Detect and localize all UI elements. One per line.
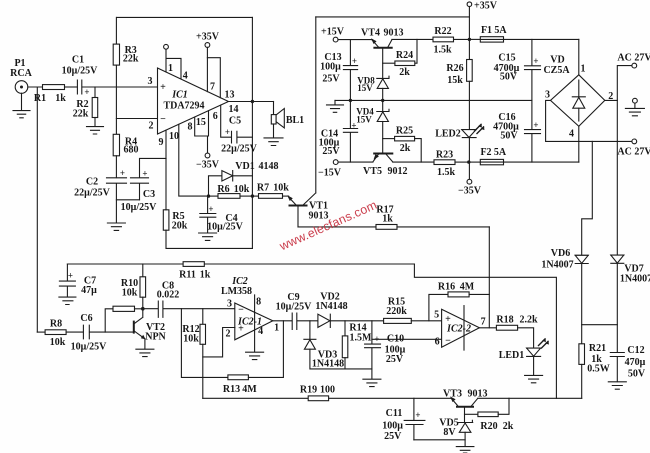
terminal +35V top	[467, 2, 472, 40]
svg-text:C1: C1	[72, 55, 84, 66]
svg-text:VD: VD	[550, 55, 564, 66]
label C10	[374, 334, 405, 366]
resistor R11	[183, 262, 204, 267]
label IC2 LM358	[221, 276, 252, 297]
fuse F2	[469, 159, 579, 164]
wire R21 C12 join	[582, 324, 618, 326]
resistor R16	[429, 292, 489, 321]
LED2	[462, 123, 485, 162]
wire VD6 feed	[582, 141, 593, 255]
svg-text:+: +	[142, 169, 147, 179]
svg-text:1.5k: 1.5k	[437, 167, 456, 178]
ground under C12	[608, 382, 626, 389]
svg-text:1N4007: 1N4007	[541, 260, 573, 271]
svg-text:15: 15	[196, 117, 206, 128]
ground chassis right	[625, 98, 644, 116]
svg-text:2k: 2k	[400, 143, 411, 154]
label R15 220k	[386, 297, 407, 318]
label R21	[587, 343, 610, 375]
svg-text:25V: 25V	[384, 431, 402, 442]
svg-text:LED1: LED1	[499, 350, 525, 361]
wire IC2-1 output	[273, 320, 292, 322]
svg-text:VT5: VT5	[363, 166, 382, 177]
svg-text:10k: 10k	[122, 288, 138, 299]
op-amp IC2-1	[235, 295, 273, 352]
capacitor C11	[404, 398, 425, 440]
label R10 10k	[121, 278, 138, 299]
label R7 10k	[257, 183, 289, 194]
capacitor C1	[77, 80, 81, 94]
svg-text:R26: R26	[446, 63, 463, 74]
svg-text:+15V: +15V	[321, 27, 345, 38]
resistor R22	[433, 37, 469, 42]
svg-text:1N4007: 1N4007	[620, 274, 650, 285]
speaker BL1	[271, 102, 284, 138]
capacitor C13	[343, 40, 357, 101]
svg-text:100μ: 100μ	[320, 62, 341, 73]
capacitor C12	[610, 353, 624, 382]
wire C1 to IC1 pin3	[82, 86, 158, 88]
svg-text:+: +	[533, 120, 538, 130]
svg-text:2: 2	[149, 121, 154, 132]
svg-text:C5: C5	[229, 116, 241, 127]
label R23	[436, 150, 456, 178]
svg-text:4: 4	[258, 326, 263, 337]
ground under C2	[107, 223, 125, 230]
resistor R20	[465, 398, 510, 416]
node A dot	[207, 194, 210, 197]
label -35V	[196, 160, 220, 171]
resistor R23	[393, 160, 469, 165]
ground under BL1	[264, 138, 283, 146]
svg-text:25V: 25V	[386, 354, 404, 365]
svg-text:1.5k: 1.5k	[433, 45, 452, 56]
svg-text:10μ/25V: 10μ/25V	[71, 342, 107, 353]
svg-text:13: 13	[225, 90, 235, 101]
wire pin2 IC2-1	[203, 328, 235, 357]
terminal -35V	[467, 162, 472, 184]
zener VD5	[458, 420, 473, 446]
label IC1	[160, 82, 204, 125]
IC1 pin13 lead	[207, 58, 220, 98]
wire bridge pin4 to F2 rail	[578, 126, 580, 162]
op-amp IC1 TDA7294	[158, 68, 229, 134]
resistor R14	[342, 321, 348, 369]
svg-text:1: 1	[274, 323, 279, 334]
resistor R12	[200, 309, 206, 399]
label R8 10k	[50, 319, 66, 349]
svg-text:5: 5	[434, 310, 439, 321]
node R22 dot	[468, 38, 471, 41]
svg-text:5A: 5A	[494, 147, 507, 158]
svg-text:9013: 9013	[468, 389, 488, 400]
svg-text:1N4148: 1N4148	[315, 301, 347, 312]
resistor R3	[113, 17, 119, 134]
svg-text:220k: 220k	[386, 306, 407, 317]
svg-text:0.022: 0.022	[157, 290, 180, 301]
label R14	[349, 323, 372, 344]
label R19 100	[300, 385, 335, 396]
svg-text:RCA: RCA	[10, 68, 32, 79]
svg-text:10μ/25V: 10μ/25V	[62, 66, 98, 77]
capacitor C4	[200, 196, 216, 233]
capacitor C3	[131, 158, 167, 199]
svg-text:2: 2	[608, 91, 613, 102]
wire bottom rail left	[203, 397, 308, 399]
label R5 20k	[172, 211, 188, 232]
wire bridge pin3 to AC bottom	[546, 100, 632, 141]
resistor R17	[298, 225, 489, 230]
wire C2 C3 join to ground	[116, 200, 139, 223]
label C11	[382, 408, 420, 442]
ground under C4	[199, 233, 217, 240]
resistor R15	[384, 318, 442, 323]
LED1	[527, 338, 549, 375]
label R4 680	[124, 137, 139, 156]
node VT2 collector dot	[141, 307, 145, 311]
svg-text:IC1: IC1	[171, 90, 188, 101]
resistor R7	[252, 194, 288, 199]
terminal +15V	[333, 37, 372, 42]
svg-text:R6: R6	[217, 184, 229, 195]
svg-text:R23: R23	[436, 150, 453, 161]
label C6	[71, 313, 107, 353]
terminal AC27V bottom	[632, 139, 637, 144]
capacitor C2	[107, 178, 127, 200]
node R23 dot	[467, 160, 470, 163]
ground under LED1	[525, 375, 543, 382]
label VT5 9012	[363, 166, 407, 177]
ground mid rail	[327, 100, 344, 112]
svg-text:1: 1	[581, 64, 586, 75]
ground under R2	[87, 127, 104, 134]
IC1 pin10 lead to mute node	[179, 124, 209, 196]
label R24 2k	[396, 50, 413, 78]
wire top rail left	[117, 16, 252, 18]
svg-text:2: 2	[226, 329, 231, 340]
svg-text:IC2-2: IC2-2	[446, 324, 471, 335]
svg-text:C3: C3	[143, 189, 155, 200]
svg-text:R24: R24	[396, 50, 413, 61]
capacitor C15	[525, 39, 541, 100]
svg-text:+: +	[208, 204, 213, 214]
node output junction	[251, 100, 254, 103]
terminal -15V	[333, 160, 373, 165]
wire P1 to R1	[28, 86, 43, 88]
svg-text:+: +	[351, 121, 356, 131]
svg-text:+: +	[120, 168, 125, 178]
label R16 4M	[438, 282, 475, 293]
transistor VT4	[371, 38, 433, 78]
label R6 10k	[217, 184, 249, 195]
label -15V	[318, 168, 342, 179]
svg-text:C2: C2	[86, 177, 98, 188]
svg-text:1N4148: 1N4148	[312, 359, 344, 370]
svg-text:9: 9	[159, 137, 164, 148]
svg-text:25V: 25V	[322, 146, 340, 157]
svg-text:R8: R8	[50, 319, 62, 330]
svg-text:−35V: −35V	[196, 160, 220, 171]
svg-text:IC2-1: IC2-1	[237, 317, 262, 328]
label C5	[221, 116, 257, 155]
svg-text:0.5W: 0.5W	[587, 364, 610, 375]
label C3	[121, 169, 157, 214]
label VD6	[541, 248, 573, 271]
svg-text:R18: R18	[496, 315, 513, 326]
svg-text:7: 7	[210, 82, 215, 93]
svg-text:3: 3	[148, 76, 153, 87]
label VD CZ5A	[543, 55, 570, 77]
svg-text:R16: R16	[438, 282, 455, 293]
label bridge pins	[545, 64, 613, 140]
svg-text:8: 8	[256, 297, 261, 308]
svg-text:10μ/25V: 10μ/25V	[207, 222, 243, 233]
ground under IC2-1	[246, 352, 264, 359]
svg-text:−: −	[238, 305, 244, 316]
label AC 27V top	[617, 53, 650, 64]
wire feedback loop right	[414, 264, 556, 398]
svg-text:R25: R25	[396, 126, 413, 137]
label R22	[433, 26, 452, 56]
resistor R2	[92, 87, 98, 126]
svg-text:4148: 4148	[259, 161, 279, 172]
label VT2 NPN	[145, 322, 166, 343]
svg-text:+: +	[374, 334, 379, 344]
terminal AC27V top	[632, 63, 637, 68]
svg-text:C10: C10	[387, 334, 404, 345]
label C8	[157, 281, 180, 301]
bridge rectifier VD CZ5A	[551, 75, 605, 127]
svg-text:10μ/25V: 10μ/25V	[276, 302, 312, 313]
label +15V	[321, 27, 403, 39]
svg-text:15V: 15V	[356, 115, 372, 125]
svg-text:C15: C15	[498, 53, 515, 64]
svg-text:22μ/25V: 22μ/25V	[74, 188, 110, 199]
resistor R5	[163, 158, 252, 248]
svg-text:1k: 1k	[55, 93, 66, 104]
resistor R19	[308, 396, 451, 401]
ground under P1	[13, 93, 30, 118]
svg-text:VT3: VT3	[443, 389, 462, 400]
label C12	[625, 345, 646, 380]
svg-text:F2: F2	[480, 147, 491, 158]
svg-text:100: 100	[320, 385, 335, 396]
label R26 15k	[446, 63, 463, 86]
wire IC1 output	[229, 101, 274, 103]
wire R11 rail	[67, 263, 414, 265]
resistor R10	[140, 264, 146, 309]
label R20 2k	[480, 421, 513, 432]
svg-text:AC 27V: AC 27V	[617, 53, 650, 64]
resistor R4	[113, 134, 119, 177]
svg-text:10k: 10k	[273, 183, 289, 194]
label F2 5A	[480, 147, 506, 158]
ground under C7	[59, 297, 76, 304]
svg-text:R13: R13	[223, 384, 240, 395]
svg-text:R21: R21	[589, 343, 606, 354]
IC1 pin8 pin15 leads to -35V	[195, 111, 210, 158]
transistor VT3	[450, 396, 582, 422]
svg-text:+: +	[415, 410, 420, 420]
svg-text:5A: 5A	[494, 25, 507, 36]
svg-text:1k: 1k	[200, 270, 211, 281]
label C1	[62, 55, 98, 98]
label C16	[493, 112, 538, 142]
svg-text:1.5M: 1.5M	[350, 333, 373, 344]
svg-text:LED2: LED2	[435, 129, 461, 140]
node B dot	[251, 194, 254, 197]
wire column to IC2-2	[488, 227, 490, 328]
svg-text:+35V: +35V	[474, 1, 498, 12]
svg-text:9012: 9012	[388, 166, 408, 177]
svg-text:3: 3	[227, 299, 232, 310]
IC1 pin1 pin4 leads and mute terminal	[164, 44, 181, 79]
capacitor C16	[525, 100, 541, 162]
svg-text:22k: 22k	[73, 109, 89, 120]
svg-text:10k: 10k	[50, 337, 66, 348]
diode VD3	[304, 321, 372, 369]
label AC 27V bottom	[617, 147, 650, 158]
label VD7	[620, 264, 650, 285]
svg-text:15k: 15k	[447, 75, 463, 86]
svg-text:680: 680	[124, 145, 139, 156]
svg-text:9013: 9013	[384, 28, 404, 39]
capacitor C6	[83, 325, 133, 339]
diode VD6	[575, 255, 588, 343]
wire output column	[251, 17, 253, 248]
svg-text:7: 7	[481, 317, 486, 328]
svg-text:6: 6	[213, 111, 218, 122]
svg-text:VD1: VD1	[235, 161, 254, 172]
svg-text:4M: 4M	[242, 384, 257, 395]
svg-text:50V: 50V	[500, 131, 518, 142]
svg-text:VD6: VD6	[551, 248, 570, 259]
diode VD2	[318, 314, 384, 327]
svg-text:4: 4	[569, 129, 574, 140]
wire C11 to VD5	[414, 439, 465, 441]
watermark www.elecfans.com	[277, 198, 380, 254]
label VD5 8V	[439, 418, 458, 439]
svg-text:22k: 22k	[123, 54, 139, 65]
node C13 dot	[349, 99, 352, 102]
ground under VT2	[136, 349, 154, 356]
label C9	[276, 292, 312, 313]
svg-text:15V: 15V	[357, 83, 373, 93]
svg-text:10: 10	[169, 131, 179, 142]
svg-text:2k: 2k	[503, 421, 514, 432]
svg-text:100μ: 100μ	[382, 421, 403, 432]
node VD4 dot	[381, 99, 384, 102]
ground under C10	[363, 379, 381, 386]
resistor R25	[383, 136, 422, 162]
capacitor C10	[365, 321, 381, 379]
label R12 10k	[182, 324, 199, 345]
resistor R18	[496, 325, 533, 348]
svg-text:R20: R20	[480, 421, 497, 432]
wire IC2-2 output	[479, 327, 496, 329]
label VD3	[312, 350, 344, 370]
IC1 pin9 lead	[165, 130, 167, 158]
svg-text:3: 3	[545, 90, 550, 101]
label P1 RCA	[10, 58, 32, 79]
label R11 1k	[179, 270, 211, 281]
svg-text:+: +	[533, 56, 538, 66]
svg-text:10μ/25V: 10μ/25V	[121, 202, 157, 213]
label C15	[494, 53, 539, 83]
label R2 22k	[73, 99, 89, 120]
resistor R21	[579, 344, 585, 399]
svg-text:47μ: 47μ	[81, 285, 97, 296]
svg-text:6: 6	[435, 337, 440, 348]
op-amp IC2-2	[442, 306, 480, 351]
capacitor C8	[143, 301, 235, 317]
svg-text:+: +	[352, 56, 357, 66]
label IC2-2 pins	[434, 310, 486, 348]
svg-text:R7: R7	[257, 183, 269, 194]
svg-text:2.2k: 2.2k	[519, 315, 538, 326]
transistor VT1	[287, 17, 316, 227]
svg-text:22μ/25V: 22μ/25V	[221, 144, 257, 155]
svg-text:+35V: +35V	[196, 32, 220, 43]
label R18	[496, 315, 538, 326]
svg-text:14: 14	[229, 104, 239, 115]
transistor VT5	[373, 154, 393, 163]
label LED1	[499, 350, 525, 361]
capacitor C5	[232, 131, 253, 143]
capacitor C9	[292, 313, 318, 330]
label LED2	[435, 129, 461, 140]
resistor R9 unlabeled	[105, 306, 143, 332]
resistor R24	[383, 39, 417, 65]
svg-text:LM358: LM358	[221, 286, 252, 297]
svg-text:F1: F1	[481, 25, 492, 36]
svg-text:25V: 25V	[322, 74, 340, 85]
label C7	[68, 271, 97, 297]
IC1 pin6 lead	[221, 105, 232, 137]
svg-text:−15V: −15V	[318, 168, 342, 179]
svg-text:2k: 2k	[399, 67, 410, 78]
svg-text:C11: C11	[386, 408, 403, 419]
node input tee	[36, 87, 38, 332]
label BL1	[286, 115, 304, 126]
label +35V	[196, 32, 220, 43]
svg-text:VT4: VT4	[361, 28, 380, 39]
wire bridge pin2 to AC top	[605, 66, 632, 101]
label -35V right	[458, 186, 482, 197]
wire top rail right	[316, 16, 470, 18]
svg-text:+: +	[68, 271, 73, 281]
resistor R6	[209, 194, 253, 199]
resistor R1	[43, 85, 65, 90]
connector P1 RCA	[15, 81, 28, 94]
capacitor C7	[59, 264, 75, 297]
label C2	[74, 168, 125, 199]
label C4	[207, 204, 243, 233]
svg-text:BL1: BL1	[286, 115, 304, 126]
wire VD7 column	[616, 100, 618, 255]
label R1 1k	[34, 93, 66, 104]
fuse F1	[469, 37, 578, 42]
svg-text:AC 27V: AC 27V	[617, 147, 650, 158]
svg-text:50V: 50V	[500, 72, 518, 83]
resistor R26	[467, 39, 473, 129]
svg-text:C12: C12	[627, 345, 644, 356]
label R3 22k	[123, 45, 139, 65]
svg-text:8V: 8V	[443, 427, 456, 438]
svg-text:R19: R19	[300, 385, 317, 396]
resistor R13	[181, 309, 283, 380]
svg-text:20k: 20k	[172, 221, 188, 232]
